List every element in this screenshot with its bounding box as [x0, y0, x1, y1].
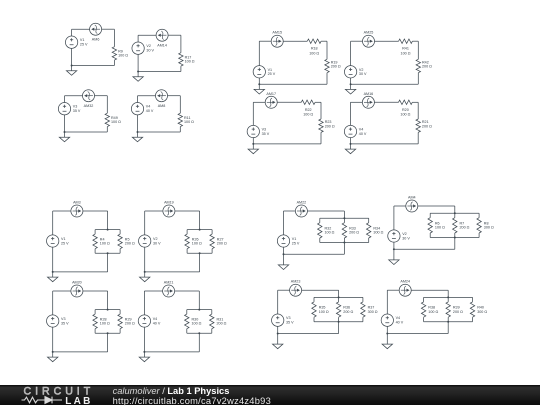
wire top right: [411, 289, 448, 291]
wire branch2 top lead: [211, 230, 213, 235]
ammeter AM16: [362, 96, 374, 108]
wire right upper: [179, 96, 181, 114]
label R21 value: [422, 120, 432, 128]
resistor R27 200 Ω: [210, 234, 214, 249]
ammeter AM19: [163, 205, 175, 217]
wire bottom: [138, 131, 181, 133]
voltage source V4 40 V: [131, 103, 143, 115]
wire left bottom: [283, 247, 285, 254]
wire bottom: [259, 83, 327, 85]
ground: [345, 84, 355, 94]
footer title: [113, 386, 271, 406]
wire branch1 top lead: [423, 297, 425, 302]
wire branch3 bottom lead: [472, 317, 474, 322]
label R22 value: [303, 108, 313, 117]
wire right lower: [320, 132, 322, 144]
wire top right: [418, 205, 455, 207]
wire bottom: [387, 333, 448, 335]
wire right lower: [417, 73, 419, 85]
wire branch1 top lead: [94, 310, 96, 315]
label V1 value: [268, 68, 276, 76]
wire branch1 top lead: [94, 230, 96, 235]
wire left top: [258, 41, 260, 66]
label V1 value: [292, 237, 300, 245]
wire left top: [393, 206, 395, 230]
wire top right: [307, 210, 344, 212]
wire branch2 top lead: [119, 230, 121, 235]
wire top right: [83, 210, 108, 212]
resistor R42 200 Ω: [416, 59, 420, 72]
wire left bottom: [350, 78, 352, 84]
resistor R39 200 Ω: [446, 302, 450, 317]
label R34 value: [373, 226, 383, 234]
ammeter AM24: [399, 284, 411, 296]
resistor R7 200 Ω: [453, 218, 457, 233]
resistor R4 100 Ω: [93, 234, 97, 249]
wire right lower: [326, 73, 328, 85]
wire right upper: [417, 41, 419, 59]
wire top left: [351, 101, 363, 103]
wire branch1 top lead: [186, 310, 188, 315]
resistor R35 100 Ω: [312, 302, 316, 317]
wire branch3 bottom lead: [368, 238, 370, 243]
wire top mid: [375, 40, 399, 42]
wire top right: [168, 95, 181, 97]
junction ground node: [393, 248, 395, 250]
wire top left: [144, 290, 162, 292]
wire left top: [71, 29, 73, 36]
voltage source V3 35 V: [47, 315, 59, 327]
junction ground node: [350, 83, 352, 85]
voltage source V3 35 V: [58, 103, 70, 115]
wire bottom: [284, 253, 345, 255]
wire top mid: [277, 101, 301, 103]
wire top right: [412, 40, 418, 42]
resistor R22 100 Ω: [301, 100, 315, 104]
label R39 value: [453, 306, 463, 314]
label R35 value: [319, 306, 329, 314]
wire bus top: [424, 296, 473, 298]
wire return: [447, 322, 449, 334]
label V2 value: [402, 232, 410, 240]
junction ground node: [52, 271, 54, 273]
wire bus bottom: [95, 252, 120, 254]
wire top right: [321, 40, 327, 42]
wire branch3 bottom lead: [362, 317, 364, 322]
voltage source V1 25 V: [65, 36, 77, 48]
wire left top: [350, 41, 352, 66]
label V1 value: [61, 237, 69, 245]
resistor R41 100 Ω: [399, 39, 413, 43]
label V2 value: [146, 44, 154, 52]
wire left bottom: [277, 326, 279, 333]
wire top left: [259, 40, 271, 42]
ammeter AM3: [71, 205, 83, 217]
ground: [382, 334, 392, 349]
label R40 value: [477, 306, 487, 314]
wire top right: [102, 28, 115, 30]
resistor R8 300 Ω: [477, 218, 481, 233]
label R41 value: [401, 47, 411, 56]
junction ground node: [350, 143, 352, 145]
wire left top: [137, 96, 139, 103]
wire branch3 bottom lead: [478, 233, 480, 238]
wire bottom: [144, 351, 199, 353]
wire branch1 bottom lead: [429, 233, 431, 238]
wire top left: [53, 210, 71, 212]
ground: [139, 352, 149, 362]
label R29 value: [125, 317, 135, 325]
wire top right: [168, 34, 181, 36]
junction bus bottom node: [107, 252, 109, 254]
junction ground node: [277, 333, 279, 335]
resistor R29 200 Ω: [118, 314, 122, 329]
wire branch2 top lead: [119, 310, 121, 315]
wire bus bottom: [320, 242, 369, 244]
wire right upper: [106, 96, 108, 114]
junction ground node: [252, 143, 254, 145]
wire bus bottom: [430, 237, 479, 239]
wire branch2 bottom lead: [338, 317, 340, 322]
wire bottom: [145, 271, 200, 273]
wire bottom: [53, 351, 108, 353]
wire branch1 top lead: [319, 218, 321, 223]
wire left bottom: [137, 115, 139, 132]
voltage source V3 35 V: [272, 314, 284, 326]
ammeter AM32: [83, 90, 95, 102]
resistor R20 100 Ω: [399, 100, 413, 104]
wire top mid: [374, 101, 398, 103]
wire left top: [64, 96, 66, 103]
wire feed: [107, 211, 109, 230]
label R32 value: [325, 226, 335, 234]
wire bus top: [187, 229, 212, 231]
label R23 value: [325, 120, 335, 128]
wire left bottom: [64, 115, 66, 132]
wire branch2 top lead: [211, 310, 213, 315]
junction ground node: [143, 351, 145, 353]
wire left top: [252, 102, 254, 125]
wire top left: [253, 101, 265, 103]
junction bus top node: [199, 229, 201, 231]
voltage source V2 30 V: [139, 235, 151, 247]
label R42 value: [422, 61, 432, 69]
wire return: [107, 333, 109, 352]
wire feed: [454, 206, 456, 213]
wire bus top: [314, 296, 363, 298]
label R49 value: [111, 116, 121, 124]
label V4 value: [359, 128, 367, 136]
wire branch2 bottom lead: [119, 329, 121, 334]
wire branch1 bottom lead: [313, 317, 315, 322]
junction ground node: [64, 131, 66, 133]
junction bus top node: [447, 296, 449, 298]
junction bus top node: [107, 229, 109, 231]
resistor R19 200 Ω: [325, 59, 329, 72]
wire bus top: [320, 217, 369, 219]
label V4 value: [153, 317, 161, 325]
voltage source V2 30 V: [132, 42, 144, 54]
ammeter AM17: [265, 96, 277, 108]
wire top left: [53, 290, 71, 292]
label V4 value: [396, 316, 404, 324]
wire top right: [175, 290, 200, 292]
wire top left: [72, 28, 90, 30]
label R17 value: [185, 55, 195, 63]
ground: [389, 249, 399, 264]
wire bus bottom: [424, 321, 473, 323]
wire left top: [283, 211, 285, 235]
wire left bottom: [350, 138, 352, 144]
ground: [66, 66, 76, 76]
voltage source V1 25 V: [277, 235, 289, 247]
wire branch2 bottom lead: [343, 238, 345, 243]
wire bus bottom: [314, 321, 363, 323]
junction ground node: [137, 71, 139, 73]
wire bottom: [351, 143, 419, 145]
wire return: [198, 333, 200, 352]
resistor R18 100 Ω: [307, 39, 321, 43]
label V2 value: [359, 68, 367, 76]
wire right upper: [180, 35, 182, 53]
wire right upper: [326, 41, 328, 59]
label R6 value: [435, 221, 445, 229]
label V3 value: [262, 128, 270, 136]
ammeter AM4: [406, 200, 418, 212]
ground: [273, 334, 283, 349]
wire left top: [143, 291, 145, 315]
wire top left: [351, 40, 363, 42]
wire top left: [394, 205, 406, 207]
wire left bottom: [258, 78, 260, 84]
wire feed: [343, 211, 345, 218]
voltage source V1 25 V: [253, 66, 265, 78]
wire feed: [199, 211, 201, 230]
label V3 value: [61, 317, 69, 325]
voltage source V4 40 V: [381, 314, 393, 326]
label R7 value: [460, 221, 470, 229]
resistor R40 300 Ω: [470, 302, 474, 317]
wire left top: [386, 290, 388, 314]
logo resistor-diode wire: [22, 397, 63, 404]
wire top right: [315, 101, 321, 103]
resistor R31 200 Ω: [210, 314, 214, 329]
resistor R23 200 Ω: [319, 119, 323, 132]
wire return: [107, 253, 109, 272]
wire left bottom: [252, 138, 254, 144]
wire feed: [338, 290, 340, 297]
wire branch1 top lead: [186, 230, 188, 235]
wire left top: [350, 102, 352, 125]
wire left top: [52, 291, 54, 315]
wire top right: [83, 290, 108, 292]
wire branch2 top lead: [447, 297, 449, 302]
wire top right: [95, 95, 108, 97]
label R37 value: [368, 306, 378, 314]
junction ground node: [137, 131, 139, 133]
wire bus bottom: [95, 332, 120, 334]
label R5 value: [125, 237, 135, 245]
wire left top: [52, 211, 54, 235]
wire top right: [302, 289, 339, 291]
wire branch3 top lead: [472, 297, 474, 302]
wire feed: [198, 291, 200, 310]
ammeter AM25: [363, 35, 375, 47]
junction bus bottom node: [454, 237, 456, 239]
resistor R11 100 Ω: [178, 113, 182, 126]
label R9 value: [118, 49, 128, 57]
ground: [278, 254, 288, 269]
label R38 value: [428, 306, 438, 314]
label V1 value: [80, 38, 88, 46]
ammeter AM15: [271, 35, 283, 47]
junction bus bottom node: [199, 252, 201, 254]
resistor R33 200 Ω: [342, 223, 346, 238]
wire bottom: [253, 143, 321, 145]
wire left top: [277, 290, 279, 314]
wire left bottom: [393, 242, 395, 249]
wire top left: [138, 34, 156, 36]
junction bus bottom node: [198, 332, 200, 334]
junction ground node: [283, 253, 285, 255]
wire bottom: [65, 131, 108, 133]
wire branch2 bottom lead: [211, 249, 213, 254]
wire top left: [387, 289, 399, 291]
ammeter AM20: [71, 285, 83, 297]
wire left bottom: [137, 54, 139, 71]
wire bottom: [138, 71, 181, 73]
ammeter AM23: [290, 284, 302, 296]
ground: [345, 144, 355, 154]
wire branch1 bottom lead: [319, 238, 321, 243]
ground: [59, 132, 69, 142]
footer bar: [0, 385, 540, 405]
wire branch1 bottom lead: [186, 249, 188, 254]
junction ground node: [52, 351, 54, 353]
junction bus top node: [107, 309, 109, 311]
resistor R5 200 Ω: [118, 234, 122, 249]
label R31 value: [217, 317, 227, 325]
voltage source V1 25 V: [47, 235, 59, 247]
wire bottom: [394, 248, 455, 250]
resistor R32 100 Ω: [318, 223, 322, 238]
label R33 value: [349, 226, 359, 234]
resistor R17 100 Ω: [179, 53, 183, 66]
wire bus top: [430, 212, 479, 214]
voltage source V2 30 V: [388, 230, 400, 242]
resistor R37 300 Ω: [361, 302, 365, 317]
wire return: [454, 238, 456, 250]
voltage source V2 30 V: [344, 66, 356, 78]
junction ground node: [258, 83, 260, 85]
junction ground node: [386, 333, 388, 335]
wire left top: [137, 35, 139, 42]
resistor R28 100 Ω: [93, 314, 97, 329]
wire bus top: [187, 309, 212, 311]
label R18 value: [309, 47, 319, 56]
wire right upper: [113, 29, 115, 47]
wire branch1 top lead: [429, 213, 431, 218]
label R27 value: [217, 237, 227, 245]
wire left bottom: [143, 327, 145, 352]
wire left bottom: [144, 247, 146, 272]
junction bus bottom node: [343, 242, 345, 244]
wire branch3 top lead: [368, 218, 370, 223]
resistor R38 100 Ω: [421, 302, 425, 317]
voltage source V3 35 V: [247, 125, 259, 137]
wire bottom: [351, 83, 419, 85]
wire bus top: [95, 309, 120, 311]
wire top mid: [283, 40, 307, 42]
wire top right: [412, 101, 418, 103]
junction bus top node: [454, 212, 456, 214]
ammeter AM22: [295, 205, 307, 217]
wire bottom: [72, 65, 115, 67]
wire bottom: [53, 271, 108, 273]
wire branch1 bottom lead: [186, 329, 188, 334]
resistor R30 100 Ω: [185, 314, 189, 329]
label R20 value: [400, 108, 410, 117]
wire bus bottom: [187, 332, 212, 334]
wire branch1 bottom lead: [94, 329, 96, 334]
wire bus bottom: [187, 252, 212, 254]
voltage source V4 40 V: [344, 125, 356, 137]
wire return: [199, 253, 201, 272]
resistor R26 100 Ω: [185, 234, 189, 249]
label R19 value: [331, 61, 341, 69]
wire feed: [107, 291, 109, 310]
ground: [48, 272, 58, 282]
ground: [254, 84, 264, 94]
ground: [48, 352, 58, 362]
resistor R9 100 Ω: [112, 47, 116, 60]
junction bus bottom node: [447, 321, 449, 323]
wire bus top: [95, 229, 120, 231]
resistor R49 100 Ω: [105, 113, 109, 126]
wire top right: [175, 210, 200, 212]
wire branch2 top lead: [454, 213, 456, 218]
wire right lower: [106, 127, 108, 132]
label R28 value: [100, 317, 110, 325]
label R26 value: [192, 237, 202, 245]
junction bus top node: [343, 217, 345, 219]
ground: [132, 132, 142, 142]
wire top left: [278, 289, 290, 291]
wire top left: [65, 95, 83, 97]
wire left bottom: [52, 327, 54, 352]
label V4 value: [146, 105, 154, 113]
wire left bottom: [52, 247, 54, 272]
ground: [133, 72, 143, 82]
ammeter AM6: [90, 23, 102, 35]
wire return: [343, 243, 345, 255]
wire left bottom: [386, 326, 388, 333]
wire feed: [447, 290, 449, 297]
label R30 value: [192, 317, 202, 325]
voltage source V4 40 V: [138, 315, 150, 327]
resistor R36 200 Ω: [336, 302, 340, 317]
wire branch2 top lead: [343, 218, 345, 223]
wire left top: [144, 211, 146, 235]
svg-text:LAB: LAB: [65, 396, 92, 405]
label R4 value: [100, 237, 110, 245]
wire left bottom: [71, 48, 73, 65]
wire right upper: [320, 102, 322, 119]
ammeter AM21: [163, 285, 175, 297]
wire branch2 bottom lead: [454, 233, 456, 238]
wire right lower: [113, 60, 115, 65]
resistor R34 300 Ω: [367, 223, 371, 238]
